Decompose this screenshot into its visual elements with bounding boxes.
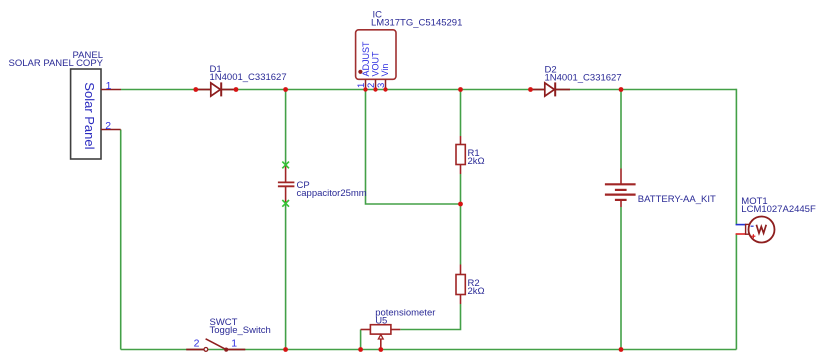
node junction IC pin3	[383, 87, 387, 91]
svg-text:1N4001_C331627: 1N4001_C331627	[545, 72, 622, 83]
battery BATTERY-AA_KIT	[605, 169, 636, 208]
node junction R1-R2-adjust	[458, 202, 463, 207]
svg-text:cappacitor25mm: cappacitor25mm	[297, 188, 367, 199]
capacitor CP no-connect X bottom	[282, 200, 289, 207]
capacitor CP no-connect X top	[282, 162, 289, 169]
solar panel PANEL body	[71, 69, 101, 159]
svg-text:SOLAR PANEL COPY: SOLAR PANEL COPY	[8, 58, 103, 69]
node junction R1 top	[458, 87, 463, 92]
toggle switch SWCT	[186, 339, 245, 352]
wire motor bottom lead down to bottom right corner	[735, 234, 737, 350]
svg-text:LCM1027A2445F: LCM1027A2445F	[741, 204, 816, 215]
svg-text:U5: U5	[375, 316, 387, 327]
svg-text:1: 1	[231, 337, 237, 349]
IC pin 3 stub	[385, 80, 387, 90]
svg-text:Toggle_Switch: Toggle_Switch	[210, 325, 271, 336]
wire potentiometer left down to bottom	[360, 330, 362, 350]
capacitor CP	[278, 166, 295, 203]
svg-text:VOUT: VOUT	[371, 51, 381, 77]
diode D2	[531, 82, 571, 96]
node junction battery top	[619, 87, 624, 92]
svg-text:2: 2	[105, 120, 111, 132]
svg-text:BATTERY-AA_KIT: BATTERY-AA_KIT	[638, 194, 716, 205]
wire IC adjust pin down and right to R1-R2 node	[366, 90, 461, 205]
svg-text:2kΩ: 2kΩ	[468, 286, 485, 297]
svg-text:Solar Panel: Solar Panel	[82, 82, 97, 149]
node junction D1 cathode	[234, 87, 239, 92]
svg-text:LM317TG_C5145291: LM317TG_C5145291	[371, 18, 462, 29]
IC pin-1 indicator dot	[358, 70, 362, 74]
potentiometer U5	[361, 325, 401, 350]
node junction D1 anode	[193, 87, 198, 92]
wire battery branch bottom	[620, 207, 622, 350]
node junction battery bottom	[619, 347, 624, 352]
wire R1 bottom to node	[460, 174, 462, 265]
wire R1 branch top	[460, 90, 462, 137]
svg-text:3: 3	[376, 83, 387, 88]
wire left vertical from solar pin2	[120, 130, 122, 350]
wire top main from solar pin1 to right corner	[121, 89, 736, 91]
wire capacitor branch upper	[285, 90, 287, 166]
wire right vertical down to motor top lead	[735, 89, 737, 225]
resistor R1	[456, 136, 465, 174]
svg-text:1: 1	[106, 80, 112, 92]
IC pin 1 stub	[365, 80, 367, 90]
solar panel pin 2 stub	[101, 129, 121, 131]
wire bottom main	[121, 349, 737, 351]
wire battery branch top	[620, 90, 622, 169]
node junction potentiometer wiper	[378, 347, 383, 352]
op-amp regulator IC LM317 body	[356, 30, 396, 80]
svg-text:2: 2	[194, 337, 200, 349]
svg-text:2kΩ: 2kΩ	[468, 156, 485, 167]
node junction capacitor bottom	[283, 347, 288, 352]
node junction IC pin2	[373, 87, 377, 91]
node junction D2 anode	[528, 87, 533, 92]
node junction IC pin1	[363, 87, 367, 91]
svg-text:1N4001_C331627: 1N4001_C331627	[210, 72, 287, 83]
node junction capacitor top	[283, 87, 288, 92]
wire R2 bottom to potentiometer right	[400, 304, 460, 330]
solar panel pin 1 stub	[101, 89, 121, 91]
resistor R2	[456, 265, 465, 305]
motor MOT1	[736, 217, 775, 243]
diode D1	[196, 82, 236, 96]
svg-text:ADJUST: ADJUST	[361, 41, 371, 77]
wire capacitor branch lower	[285, 204, 287, 350]
IC pin 2 stub	[375, 80, 377, 90]
node junction potentiometer left	[358, 347, 363, 352]
svg-text:Vin: Vin	[380, 64, 390, 77]
